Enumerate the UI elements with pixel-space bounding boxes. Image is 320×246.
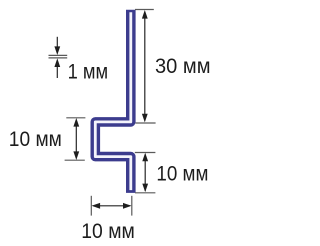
svg-text:10 мм: 10 мм [9,126,62,151]
svg-text:10 мм: 10 мм [156,161,208,186]
svg-text:30 мм: 30 мм [155,53,211,78]
svg-text:10 мм: 10 мм [81,218,135,243]
svg-text:1 мм: 1 мм [68,58,109,83]
